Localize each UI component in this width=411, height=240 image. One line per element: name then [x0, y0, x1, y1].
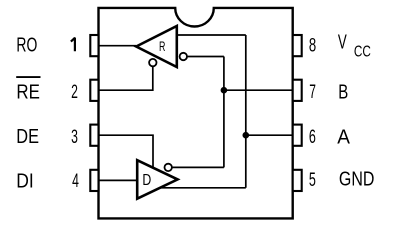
- label RE overline: [16, 76, 40, 78]
- junction node B: [221, 87, 228, 94]
- wire driver inverting bubble to node B: [172, 166, 224, 168]
- IC body U1 with index notch: [99, 8, 293, 219]
- svg-text:V: V: [338, 31, 347, 54]
- svg-text:RO: RO: [16, 33, 37, 56]
- svg-text:A: A: [337, 125, 350, 148]
- svg-text:DE: DE: [16, 125, 39, 148]
- wire DE pin3 to driver enable: [99, 135, 154, 168]
- svg-text:GND: GND: [339, 168, 375, 191]
- pin number 1: [71, 38, 75, 51]
- wire receiver inverting bubble to node B: [187, 56, 224, 58]
- pin 1 stub: [90, 35, 98, 56]
- svg-text:RE: RE: [16, 80, 40, 103]
- wire node B to pin 7: [224, 89, 293, 91]
- svg-text:6: 6: [309, 126, 316, 148]
- wire driver output to node A: [160, 187, 246, 189]
- wire RO pin1 to receiver output: [99, 45, 137, 47]
- svg-text:2: 2: [71, 81, 78, 103]
- junction node A: [243, 132, 250, 139]
- svg-text:5: 5: [309, 169, 316, 191]
- svg-text:R: R: [159, 39, 166, 54]
- wire receiver noninverting input to node A: [178, 34, 246, 36]
- svg-text:7: 7: [309, 81, 316, 103]
- pin 8 stub: [293, 35, 302, 56]
- receiver enable bubble: [149, 59, 156, 66]
- pin 7 stub: [293, 80, 302, 101]
- svg-text:CC: CC: [354, 43, 371, 60]
- pin 4 stub: [90, 170, 98, 191]
- pin 3 stub: [90, 125, 98, 146]
- wire DI pin4 to driver input: [99, 179, 138, 181]
- receiver inverting input bubble: [180, 53, 187, 60]
- pin 2 stub: [90, 80, 98, 101]
- svg-text:D: D: [142, 172, 151, 189]
- wire node A to pin 6: [246, 134, 293, 136]
- driver D triangle: [137, 160, 177, 199]
- svg-text:4: 4: [72, 170, 79, 192]
- svg-text:DI: DI: [16, 169, 34, 192]
- pin 6 stub: [293, 125, 302, 146]
- svg-text:3: 3: [71, 126, 78, 148]
- wire net A vertical: [245, 35, 247, 188]
- svg-text:8: 8: [309, 35, 316, 57]
- svg-text:B: B: [338, 80, 348, 103]
- receiver R triangle: [136, 26, 177, 67]
- pin 5 stub: [293, 170, 302, 191]
- wire net B vertical: [223, 57, 225, 168]
- wire RE pin2 to receiver enable bubble: [99, 67, 153, 90]
- driver inverting output bubble: [165, 164, 172, 171]
